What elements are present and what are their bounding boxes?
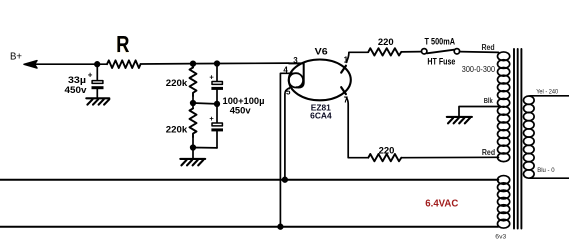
svg-text:220: 220 [378,37,394,48]
svg-text:450v: 450v [230,106,252,117]
svg-text:+: + [88,71,93,80]
label 33u 450v [65,75,88,96]
transformer T1 primary winding [524,96,535,178]
junction at C1 [95,62,100,67]
svg-text:Yel - 240: Yel - 240 [536,89,558,96]
wire pin 4 to heater rail 2 [280,73,298,226]
resistor R4 220 [368,48,401,55]
svg-text:Red: Red [482,43,495,52]
svg-text:Blk: Blk [484,96,494,105]
tube cathode (pin 3) [289,63,304,87]
wire pin 1 to R4 [346,52,368,62]
svg-text:3: 3 [293,56,298,65]
resistor R [107,31,141,68]
junction mid R2/R3 [191,101,196,106]
wire R5 to transformer [401,156,498,158]
svg-text:6v3: 6v3 [495,233,506,240]
node B+ [10,51,37,69]
wire R4 to fuse [401,51,421,53]
svg-text:+: + [209,72,214,81]
ground G1 [86,98,109,104]
wire mid link [193,102,217,105]
svg-text:300-0-300: 300-0-300 [462,65,496,74]
wire bottom link [193,148,217,159]
capacitor C1 33u [88,64,104,98]
junction bottom [191,145,196,150]
svg-text:Blu - 0: Blu - 0 [537,167,555,174]
svg-text:HT Fuse: HT Fuse [427,56,455,66]
capacitor C2 100u [209,64,223,104]
wire primary live [530,95,569,97]
label EZ81 6CA4 [310,102,332,120]
svg-text:220k: 220k [166,125,188,136]
wire heater rail 2 [0,226,498,228]
svg-text:R: R [116,31,129,57]
junction bus / R2 [191,61,196,66]
svg-text:Red: Red [482,148,495,157]
tube anode plate (pin 1) [341,66,346,73]
resistor R3 220k [190,103,197,148]
transformer T1 core [514,49,521,229]
wire fuse to transformer [460,51,499,54]
fuse F1 HT [422,49,460,54]
svg-text:6CA4: 6CA4 [310,111,332,121]
svg-text:450v: 450v [65,85,88,96]
wire primary neutral [530,177,569,179]
label 100+100u 450v [223,96,265,117]
tube heater loop [289,73,303,87]
wire pin 5 to heater rail 1 [285,88,290,180]
ground G2 [180,159,205,166]
transformer T1 heater winding [498,176,510,229]
junction bus / C2 [215,61,220,66]
resistor R5 220 [368,154,401,161]
junction mid C2/C3 [215,102,220,107]
junction rail 2 [278,224,283,229]
junction rail 1 [283,177,288,182]
svg-text:220: 220 [379,145,395,156]
resistor R2 220k [190,64,197,103]
ground G3 [447,117,472,124]
wire heater rail 1 [0,179,498,181]
svg-text:T 500mA: T 500mA [425,36,456,46]
tube anode plate (pin 7) [341,87,346,94]
svg-text:B+: B+ [10,51,22,63]
transformer T1 HV secondary winding [498,52,510,162]
op-amp: tube V6 envelope [289,60,351,101]
wire B+ bus left [30,63,107,65]
wire centre tap Blk [459,107,499,117]
svg-text:6.4VAC: 6.4VAC [425,198,458,209]
svg-text:+: + [209,114,214,123]
wire B+ bus right [141,62,290,65]
svg-text:V6: V6 [315,47,328,58]
wire pin 7 to R5 [346,98,368,158]
svg-text:220k: 220k [166,78,188,89]
capacitor C3 100u [209,104,223,148]
